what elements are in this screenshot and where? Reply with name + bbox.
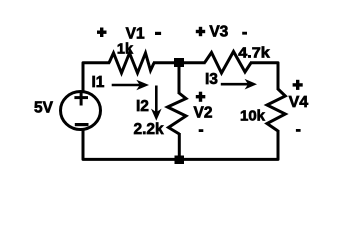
current label I3 — [205, 71, 218, 88]
node B: bottom junction — [175, 156, 185, 165]
voltage source 5V circle — [61, 92, 101, 130]
value label 1k — [117, 42, 134, 58]
label V4 — [289, 94, 309, 111]
voltage source plus terminal mark — [74, 91, 88, 106]
resistor 4.7k (V3) zigzag — [205, 52, 252, 74]
svg-text:1k: 1k — [117, 42, 134, 58]
svg-text:5V: 5V — [34, 99, 54, 116]
svg-text:10k: 10k — [240, 108, 266, 125]
current arrow I1 — [112, 80, 149, 91]
resistor 1k (V1) zigzag — [109, 53, 154, 73]
label V3 — [209, 23, 228, 40]
label + for V4 — [293, 80, 303, 90]
value label 4.7k — [238, 45, 270, 62]
resistor 10k (V4) vertical zigzag — [267, 89, 285, 131]
resistor 2.2k (V2) vertical zigzag — [168, 93, 187, 134]
current arrow I2 — [151, 86, 162, 121]
current label I1 — [92, 74, 105, 91]
value label 2.2k — [134, 121, 165, 138]
label + for V3 — [196, 27, 205, 36]
current label I2 — [136, 98, 149, 115]
svg-text:I1: I1 — [92, 74, 105, 91]
wire: top-right corner from 4.7k down right branch — [250, 63, 278, 90]
wire: right branch bottom, bottom rail, left branch bottom to source — [83, 130, 278, 159]
value label 5V — [34, 99, 54, 116]
wire: middle branch from node A down to 2.2k — [178, 63, 181, 94]
label + for V1 — [97, 28, 107, 38]
svg-text:2.2k: 2.2k — [134, 121, 165, 138]
label + for V2 — [196, 92, 206, 102]
label V2 — [194, 105, 213, 122]
value label 10k — [240, 108, 266, 125]
svg-text:V1: V1 — [126, 25, 145, 42]
label - for V1 — [155, 32, 161, 35]
voltage source minus terminal mark — [75, 123, 89, 126]
label - for V3 — [242, 32, 247, 35]
svg-text:4.7k: 4.7k — [238, 45, 270, 62]
label V1 — [126, 25, 145, 42]
svg-text:V2: V2 — [194, 105, 213, 122]
wire: top middle segment from 1k to 4.7k through node A — [153, 61, 206, 64]
label - for V4 — [296, 129, 301, 132]
svg-text:I2: I2 — [136, 98, 149, 115]
label - for V2 — [199, 129, 204, 132]
svg-text:V4: V4 — [289, 94, 309, 111]
current arrow I3 — [221, 79, 257, 90]
svg-text:V3: V3 — [209, 23, 228, 40]
wire: middle branch from 2.2k down to node B — [178, 133, 181, 159]
wire: top-left segment from source top to resistor 1k — [83, 63, 110, 91]
node A: top junction — [174, 58, 184, 67]
svg-text:I3: I3 — [205, 71, 218, 88]
